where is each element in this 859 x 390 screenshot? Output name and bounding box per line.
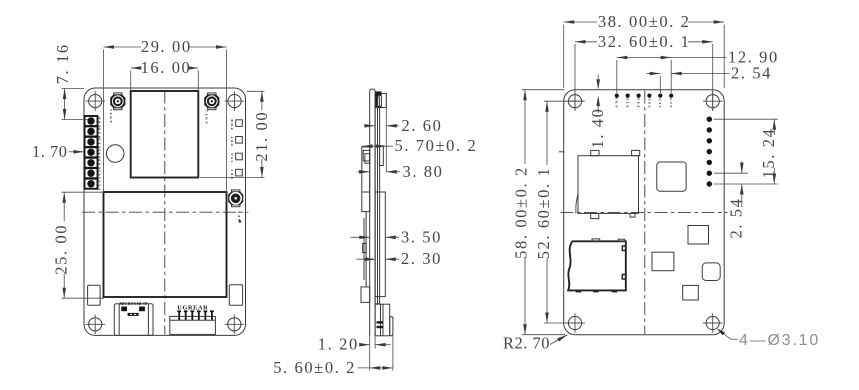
pin header label TXD (98, 137, 102, 149)
side view mid strip left (363, 212, 367, 287)
svg-text:5. 60±0. 2: 5. 60±0. 2 (273, 358, 356, 377)
mounting hole top-right (front) (225, 91, 245, 111)
right pin 1 (back) (707, 117, 712, 122)
LED label REC (230, 168, 234, 179)
dimension 58.00±0.2 (512, 90, 566, 335)
LED STA (236, 153, 243, 160)
svg-text:2. 54: 2. 54 (726, 198, 745, 239)
back view vertical centerline (644, 91, 646, 335)
top pin 2 (back) (626, 94, 630, 98)
dimension 2.54 top (647, 64, 773, 94)
micro-SD card holder (568, 239, 626, 293)
SIM card holder (576, 150, 640, 218)
svg-text:1. 70: 1. 70 (32, 142, 68, 161)
mounting hole top-left (front) (85, 91, 105, 111)
dimension R2.70 leader (503, 334, 567, 353)
svg-text:2. 30: 2. 30 (401, 249, 442, 268)
svg-text:TXD: TXD (636, 96, 640, 108)
dimension 2.54 right (714, 161, 748, 239)
label ANT1 (109, 108, 113, 123)
right pin 6 (back) (707, 171, 712, 176)
pin header label GND (98, 157, 102, 169)
top pin 4 (back) (647, 94, 651, 98)
LED REC (236, 169, 243, 176)
top pin label 3V3 (658, 97, 662, 107)
micro-USB connector (114, 304, 153, 336)
back view horizontal centerline (561, 212, 728, 214)
LED NET (236, 137, 243, 144)
side view battery block (375, 192, 385, 297)
pin header label 3V3 (98, 169, 102, 179)
top pin label RXD (626, 96, 630, 108)
svg-text:21. 00: 21. 00 (252, 111, 271, 162)
top pin label PPS (647, 97, 651, 107)
side view extension line right (385, 93, 387, 172)
front view horizontal centerline (82, 211, 248, 213)
component square S4 (683, 285, 699, 300)
shield can (131, 91, 199, 178)
dimension 2.60 (364, 116, 442, 135)
pin header label RXD (98, 126, 102, 138)
pin header label GND (98, 116, 102, 128)
svg-text:16. 00: 16. 00 (141, 58, 192, 77)
dimension 29.00 (104, 37, 227, 192)
svg-text:29. 00: 29. 00 (141, 37, 192, 56)
svg-text:VCC: VCC (98, 178, 102, 190)
component square S3 (702, 263, 720, 281)
pin header pad 5 (85, 158, 98, 168)
silkscreen tick left edge (559, 151, 564, 153)
svg-text:2. 60: 2. 60 (402, 116, 443, 135)
dimension 21.00 (200, 91, 271, 177)
side view component strip right (375, 97, 380, 304)
pin header label PPS (98, 148, 102, 158)
pin header pad 3 (85, 137, 98, 147)
top pin 6 (back) (669, 94, 673, 98)
mounting hole bottom-right (front) (225, 315, 245, 335)
dimension 12.90 (617, 48, 779, 94)
svg-text:52. 60±0. 1: 52. 60±0. 1 (534, 167, 553, 260)
buzzer circle (106, 145, 124, 163)
coax connector GPS (228, 190, 243, 207)
dimension 16.00 (131, 58, 199, 91)
svg-text:RXD: RXD (626, 96, 630, 108)
dimension 15.24 (714, 119, 778, 184)
dimension 25.00 (52, 192, 105, 298)
side view buzzer bump (380, 146, 384, 166)
pin header pad 7 (85, 179, 98, 189)
svg-text:PPS: PPS (98, 148, 102, 158)
svg-text:MICROUSB-5P: MICROUSB-5P (119, 302, 148, 306)
svg-text:1. 40: 1. 40 (588, 108, 607, 149)
dimension 7.16 (53, 43, 88, 119)
dimension 4-D3.10 leader (717, 328, 820, 348)
component square S1 (688, 226, 709, 245)
svg-text:3V3: 3V3 (98, 169, 102, 179)
top pin label TXD (636, 96, 640, 108)
front view board outline (84, 88, 246, 335)
dimension 3.80 (358, 162, 444, 181)
svg-text:ANT2: ANT2 (205, 109, 209, 124)
dimension 3.50 (351, 227, 443, 246)
svg-text:38. 00±0. 2: 38. 00±0. 2 (598, 12, 691, 31)
svg-text:REC: REC (230, 168, 234, 179)
pin header label VCC (98, 178, 102, 190)
svg-text:STA: STA (230, 152, 234, 162)
svg-text:R2. 70: R2. 70 (503, 334, 550, 353)
side view PCB strip (370, 89, 375, 336)
mounting hole top-right (back) (703, 91, 723, 111)
UART connector (170, 311, 216, 334)
top pin 1 (back) (615, 94, 619, 98)
component square S2 (652, 252, 674, 271)
top pin label VCC (669, 96, 673, 108)
right pin 3 (back) (707, 138, 712, 143)
right pin 2 (back) (707, 127, 712, 132)
dimension 5.60±0.2 (273, 336, 393, 377)
dimension 38.00±0.2 (564, 12, 725, 88)
pin header pad 2 (85, 126, 98, 136)
right pin 7 (back) (707, 181, 712, 186)
svg-text:UGREAR: UGREAR (177, 305, 208, 312)
svg-text:7. 16: 7. 16 (53, 43, 72, 84)
LED label NET (230, 135, 234, 146)
dimension 2.30 (357, 249, 443, 268)
pin header pad 6 (85, 168, 98, 178)
side view coax connector block (375, 91, 386, 107)
side view USB block (375, 304, 393, 336)
mounting hole top-left (back) (565, 91, 585, 111)
label ANT2 (205, 109, 209, 124)
svg-text:58. 00±0. 2: 58. 00±0. 2 (512, 166, 531, 259)
dimension 52.60±0.1 (534, 101, 584, 323)
UART silkscreen text (177, 305, 208, 312)
side view SD holder block (361, 287, 370, 303)
coax connector ANT1 (110, 93, 125, 110)
svg-text:GPS: GPS (237, 210, 241, 221)
coax connector ANT2 (204, 93, 219, 110)
svg-text:25. 00: 25. 00 (52, 224, 71, 275)
top pin 5 (back) (658, 94, 662, 98)
LED label PWR (230, 118, 234, 130)
front view vertical centerline (164, 91, 166, 335)
dimension 1.70 leader (32, 142, 84, 161)
mounting hole bottom-left (back) (565, 313, 585, 333)
back view board outline (564, 90, 725, 335)
dimension 5.70±0.2 (362, 136, 477, 155)
svg-text:15. 24: 15. 24 (759, 128, 778, 179)
battery clamp right (229, 285, 242, 306)
svg-text:GND: GND (615, 96, 619, 108)
svg-text:4—Ø3.10: 4—Ø3.10 (739, 332, 820, 349)
right pin 5 (back) (707, 160, 712, 165)
micro-USB silkscreen text (119, 302, 148, 306)
label GPS (237, 210, 241, 223)
dimension 1.40 (588, 75, 607, 149)
battery holder (104, 192, 227, 297)
pin header pad 4 (85, 147, 98, 157)
pin header pad 1 (85, 116, 98, 126)
dimension 1.20 (318, 335, 391, 371)
svg-text:32. 60±0. 1: 32. 60±0. 1 (598, 32, 691, 51)
svg-text:3. 50: 3. 50 (401, 227, 442, 246)
LED label STA (230, 152, 234, 162)
LED PWR (236, 120, 243, 127)
side view SIM holder block (362, 147, 370, 212)
svg-text:PPS: PPS (647, 97, 651, 107)
IC U1 square (657, 162, 686, 191)
svg-text:ANT1: ANT1 (109, 108, 113, 123)
mounting hole bottom-right (back) (703, 313, 723, 333)
svg-text:PWR: PWR (230, 118, 234, 130)
top pin label GND (615, 96, 619, 108)
mounting hole bottom-left (front) (85, 315, 105, 335)
svg-text:1. 20: 1. 20 (318, 335, 359, 354)
svg-text:3. 80: 3. 80 (403, 162, 444, 181)
svg-text:NET: NET (230, 135, 234, 146)
svg-text:2. 54: 2. 54 (731, 64, 772, 83)
right pin 4 (back) (707, 149, 712, 154)
svg-text:5. 70±0. 2: 5. 70±0. 2 (395, 136, 478, 155)
top pin 3 (back) (637, 94, 641, 98)
dimension 32.60±0.1 (575, 32, 713, 110)
svg-text:VCC: VCC (669, 96, 673, 108)
battery clamp left (88, 285, 101, 305)
svg-text:3V3: 3V3 (658, 97, 662, 107)
